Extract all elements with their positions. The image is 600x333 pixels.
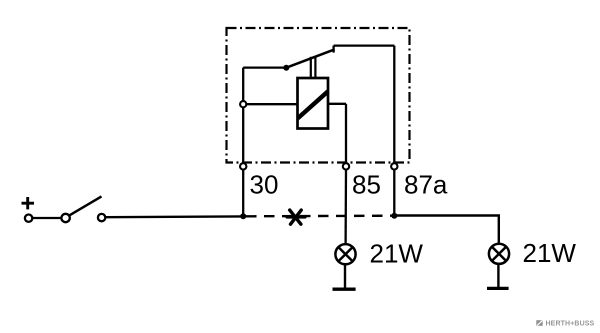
node: junction circle on left branch xyxy=(240,101,246,107)
ground G2 xyxy=(487,287,509,290)
logo Herth+Buss icon xyxy=(536,320,542,326)
wire: box-left vertical from contact pivot branch down to terminal 30 xyxy=(242,68,244,164)
wire: junction to lamp L2 xyxy=(394,216,499,244)
junction dot at 87a feed xyxy=(391,213,397,219)
terminal 85 (circle) xyxy=(343,163,349,169)
wire: dashed optional link 30 to 87a feed xyxy=(246,214,394,217)
svg-text:85: 85 xyxy=(352,170,381,200)
coil diagonal stripe xyxy=(298,91,328,118)
switch S1 pivot (circle) xyxy=(61,214,69,222)
wire: fixed contact to 87a drop xyxy=(334,44,395,46)
svg-text:HERTH+BUSS: HERTH+BUSS xyxy=(546,321,595,328)
wire: horizontal branch to contact pivot xyxy=(243,66,286,68)
wire: lamp L2 to ground xyxy=(497,265,499,288)
switch S1 blade (open) xyxy=(69,196,101,215)
armature actuator link (double line) xyxy=(310,57,312,78)
lamp L1 21W (circle-X) xyxy=(335,244,355,264)
svg-text:21W: 21W xyxy=(523,238,577,268)
switch S1 output contact (circle) xyxy=(98,214,105,221)
wire: plus terminal to switch xyxy=(33,217,62,219)
relay box K1 (dash-dot outline) xyxy=(227,28,410,163)
lamp L2 21W (circle-X) xyxy=(489,244,509,264)
wire: coil right end to terminal 85 drop xyxy=(328,103,346,105)
svg-text:21W: 21W xyxy=(370,239,424,269)
wire: switch to node under terminal 30 xyxy=(106,215,244,218)
relay coil K1 body xyxy=(298,78,329,129)
wire: terminal 30 down to supply wire xyxy=(242,170,244,217)
asterisk marker xyxy=(287,210,305,224)
wire: lamp L1 to ground xyxy=(344,265,346,288)
wire: terminal 85 down through supply wire to lamp L1 xyxy=(344,170,347,244)
wire: node to coil left end xyxy=(246,103,298,105)
svg-text:87a: 87a xyxy=(404,170,448,200)
relay contact pivot dot xyxy=(283,65,289,71)
svg-text:30: 30 xyxy=(250,170,279,200)
relay contact lever (NC, to 87a) xyxy=(286,49,334,67)
wire: terminal 87a down to junction xyxy=(393,170,395,216)
battery plus sign xyxy=(22,202,35,205)
terminal + (circle) xyxy=(25,215,32,222)
junction dot at 30 feed xyxy=(240,213,246,219)
ground G1 xyxy=(333,288,356,291)
terminal 87a (circle) xyxy=(391,163,397,169)
fixed contact stub xyxy=(332,46,334,53)
terminal 30 (circle) xyxy=(240,163,246,169)
